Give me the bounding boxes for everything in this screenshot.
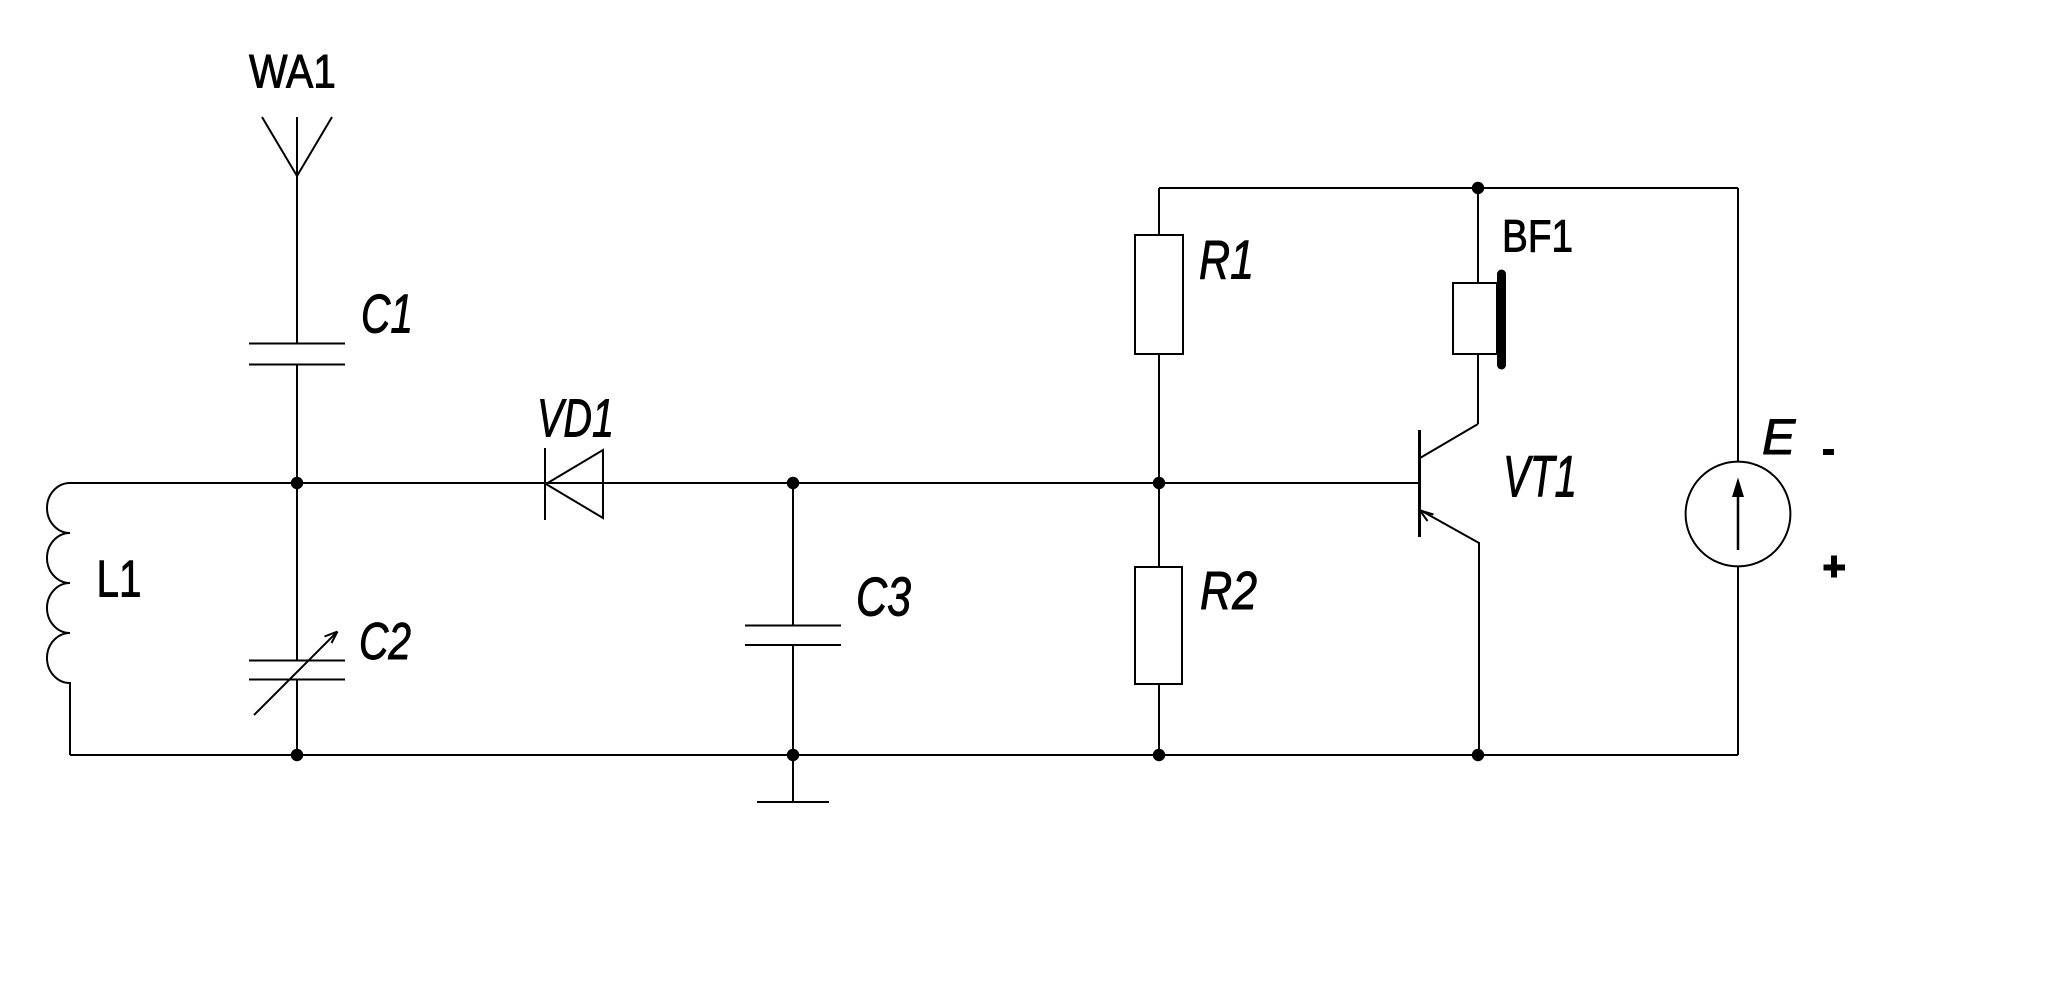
svg-text:C1: C1 bbox=[361, 283, 413, 345]
svg-text:L1: L1 bbox=[97, 551, 142, 609]
svg-text:E: E bbox=[1762, 409, 1796, 465]
svg-text:C2: C2 bbox=[359, 613, 411, 671]
svg-text:BF1: BF1 bbox=[1502, 211, 1573, 262]
svg-text:VD1: VD1 bbox=[537, 389, 614, 449]
svg-text:R1: R1 bbox=[1199, 229, 1254, 291]
svg-text:R2: R2 bbox=[1200, 561, 1257, 621]
svg-text:WA1: WA1 bbox=[249, 46, 336, 99]
svg-text:VT1: VT1 bbox=[1503, 445, 1577, 510]
svg-text:C3: C3 bbox=[856, 566, 911, 628]
